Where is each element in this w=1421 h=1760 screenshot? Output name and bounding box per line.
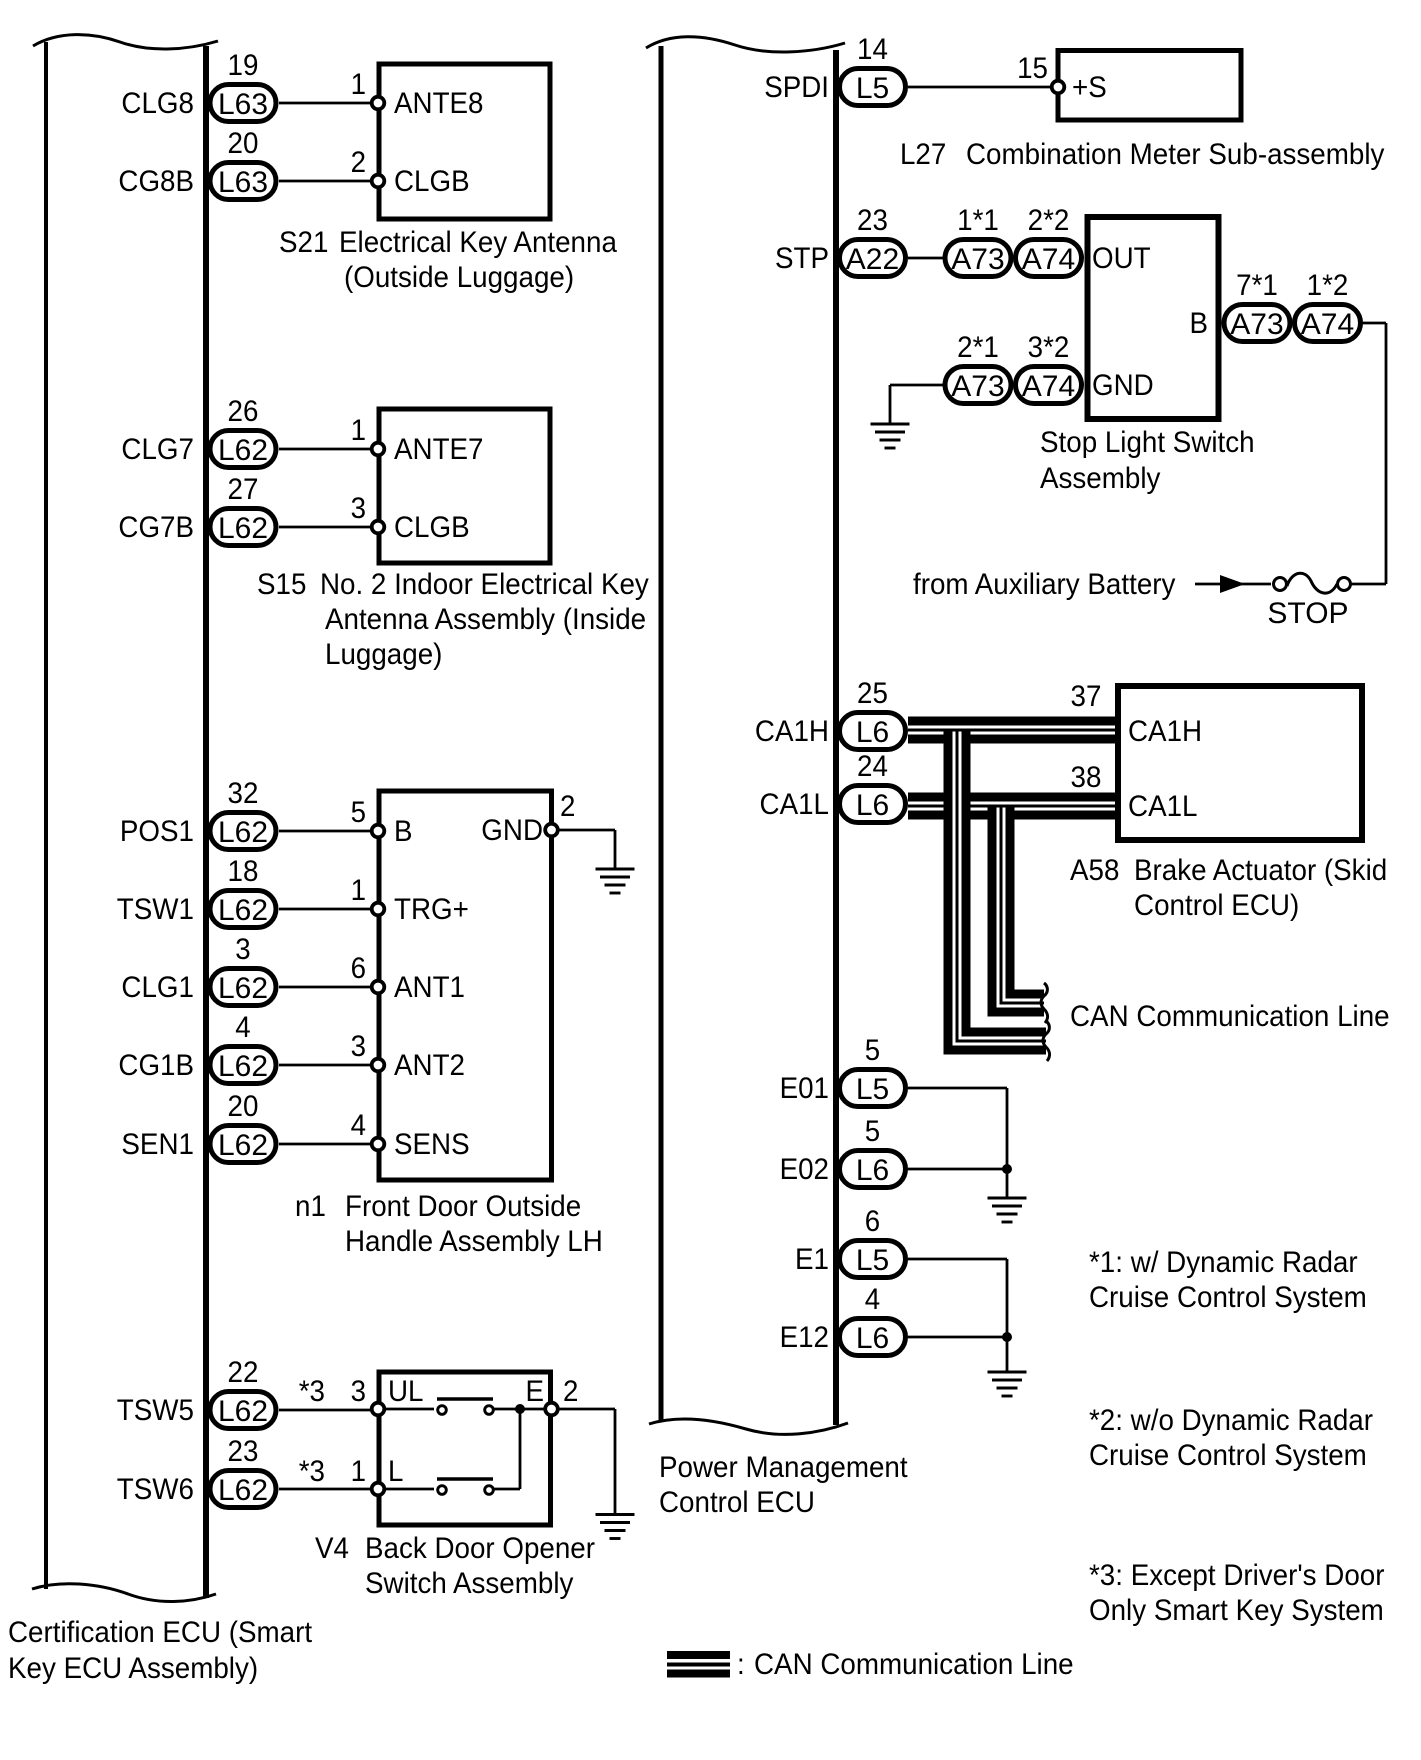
wire break squiggle at end of CA1H CAN branch (1043, 1021, 1050, 1061)
connector L5 pin 5 (E01) (840, 1034, 906, 1107)
legend label : CAN Communication Line (737, 1648, 1074, 1681)
svg-text:Antenna Assembly (Inside: Antenna Assembly (Inside (325, 603, 646, 636)
wire UL pin to switch contact (385, 1408, 434, 1411)
svg-text:7*1: 7*1 (1236, 269, 1278, 302)
note *1 w/ Dynamic Radar Cruise Control System (1089, 1246, 1367, 1314)
connector L62 pin 4 (CG1B) (210, 1011, 276, 1084)
svg-text:15: 15 (1017, 52, 1048, 85)
svg-text:L: L (388, 1455, 403, 1488)
wire from connector L62 to component (CLG7) (279, 448, 372, 451)
svg-text:22: 22 (228, 1356, 259, 1389)
svg-text:CG7B: CG7B (118, 511, 194, 544)
label Stop Light Switch Assembly (1040, 426, 1255, 495)
svg-text:CAN Communication Line: CAN Communication Line (754, 1648, 1074, 1681)
svg-text:L63: L63 (218, 88, 268, 121)
connector L6 pin 4 (E12) (840, 1283, 906, 1356)
svg-text:TSW6: TSW6 (117, 1473, 194, 1506)
svg-text:L62: L62 (218, 434, 268, 467)
connector A73 pin 1*1 (STP out) (945, 204, 1011, 277)
connector A73 pin 2*1 (GND) (945, 331, 1011, 404)
svg-text:Front Door Outside: Front Door Outside (345, 1190, 581, 1223)
svg-text:1: 1 (351, 1455, 366, 1488)
svg-text:1*1: 1*1 (957, 204, 999, 237)
switch UL contact circles (438, 1406, 494, 1415)
svg-text:CG1B: CG1B (118, 1049, 194, 1082)
svg-text:4: 4 (235, 1011, 250, 1044)
svg-text:A73: A73 (1230, 308, 1283, 341)
wire from connector L62 to component (TSW5) (279, 1409, 372, 1412)
svg-text:6: 6 (865, 1205, 880, 1238)
connector A73 pin 7*1 (B) (1224, 269, 1290, 342)
svg-text:14: 14 (857, 33, 888, 66)
wire n1 GND to ground (559, 830, 615, 869)
junction dot E01/E02 (1002, 1164, 1012, 1174)
svg-text:L62: L62 (218, 816, 268, 849)
svg-text:2*1: 2*1 (957, 331, 999, 364)
svg-text:3: 3 (235, 933, 250, 966)
label Power Management Control ECU (659, 1451, 908, 1519)
svg-text:B: B (394, 815, 413, 848)
svg-text:L62: L62 (218, 1474, 268, 1507)
svg-text:Only Smart Key System: Only Smart Key System (1089, 1594, 1384, 1627)
connector L6 pin 24 (CA1L) (840, 750, 906, 823)
pin 4 circle SENS on n1 (372, 1138, 385, 1151)
svg-text:B: B (1190, 307, 1209, 340)
svg-text:26: 26 (228, 395, 259, 428)
pin 1 circle TRG+ on n1 (372, 903, 385, 916)
connector L62 pin 20 (SEN1) (210, 1090, 276, 1163)
svg-text:L6: L6 (856, 1154, 889, 1187)
antenna S21 box outline (379, 64, 550, 219)
svg-text:18: 18 (228, 855, 259, 888)
svg-text:3: 3 (351, 1030, 366, 1063)
wire break squiggle at end of CA1L CAN branch (1041, 983, 1048, 1023)
svg-text:*1: w/ Dynamic Radar: *1: w/ Dynamic Radar (1089, 1246, 1358, 1279)
svg-text:n1: n1 (295, 1190, 326, 1223)
fuse STOP right terminal circle (1338, 578, 1351, 591)
connector L63 pin 20 (CG8B) (210, 127, 276, 200)
svg-text:(Outside Luggage): (Outside Luggage) (344, 261, 574, 294)
arrowhead from auxiliary battery (1220, 575, 1245, 593)
svg-text:2: 2 (563, 1375, 578, 1408)
ECU bus Power Management Control ECU left rail (659, 46, 664, 1421)
svg-text:CA1L: CA1L (1128, 790, 1198, 823)
svg-text:+S: +S (1072, 71, 1107, 104)
label S15 No. 2 Indoor Electrical Key Antenna Assembly (Inside Luggage) (257, 568, 649, 671)
label S21 Electrical Key Antenna (Outside Luggage) (279, 226, 617, 294)
svg-text:3*2: 3*2 (1028, 331, 1070, 364)
svg-text:1: 1 (351, 68, 366, 101)
pin 3 circle ANT2 on n1 (372, 1059, 385, 1072)
svg-text:27: 27 (228, 473, 259, 506)
svg-text:A74: A74 (1022, 370, 1075, 403)
wire from connector L62 to component (POS1) (279, 830, 372, 833)
svg-text:E01: E01 (780, 1072, 829, 1105)
switch V4 box outline (379, 1372, 551, 1525)
svg-text:L63: L63 (218, 166, 268, 199)
svg-text:ANT2: ANT2 (394, 1049, 465, 1082)
svg-text:L5: L5 (856, 72, 889, 105)
pin 1 circle ANTE7 on S15 (372, 443, 385, 456)
svg-text:TSW1: TSW1 (117, 893, 194, 926)
wire from auxiliary battery arrow (1195, 583, 1271, 586)
svg-text:2: 2 (351, 146, 366, 179)
svg-text:GND: GND (1092, 369, 1154, 402)
wire from connector L62 to component (TSW1) (279, 908, 372, 911)
svg-text:STP: STP (775, 242, 829, 275)
wire from connector L63 to component (CLG8) (279, 102, 372, 105)
svg-text:5: 5 (865, 1115, 880, 1148)
connector L62 pin 26 (CLG7) (210, 395, 276, 468)
connector L62 pin 18 (TSW1) (210, 855, 276, 928)
pin 5 circle B on n1 (372, 825, 385, 838)
svg-text:ANT1: ANT1 (394, 971, 465, 1004)
svg-text:E1: E1 (795, 1243, 829, 1276)
pin 6 circle ANT1 on n1 (372, 981, 385, 994)
wire break wave bottom of Certification ECU bus (32, 1584, 216, 1602)
svg-text:A74: A74 (1022, 243, 1075, 276)
wire E02 to ground riser (908, 1168, 1007, 1171)
svg-text:POS1: POS1 (120, 815, 194, 848)
svg-text:Brake Actuator (Skid: Brake Actuator (Skid (1134, 854, 1387, 887)
svg-text:Cruise Control System: Cruise Control System (1089, 1281, 1367, 1314)
svg-text:25: 25 (857, 677, 888, 710)
wire from connector L62 to component (CG7B) (279, 526, 372, 529)
wire SPDI to +S (908, 86, 1051, 89)
note *3 Except Driver's Door Only Smart Key System (1089, 1559, 1385, 1627)
meter L27 box outline (1058, 51, 1241, 121)
wire from connector L62 to component (SEN1) (279, 1143, 372, 1146)
legend CAN line symbol (667, 1651, 730, 1678)
svg-text:Electrical Key Antenna: Electrical Key Antenna (339, 226, 617, 259)
svg-text:Luggage): Luggage) (325, 638, 442, 671)
switch L contact circles (438, 1486, 494, 1495)
label L27 Combination Meter Sub-assembly (900, 138, 1384, 171)
svg-text:24: 24 (857, 750, 888, 783)
fuse STOP left terminal circle (1274, 578, 1287, 591)
svg-text:1: 1 (351, 874, 366, 907)
svg-text:No. 2 Indoor Electrical Key: No. 2 Indoor Electrical Key (320, 568, 649, 601)
wire from connector L62 to component (TSW6) (279, 1488, 372, 1491)
svg-text:A74: A74 (1301, 308, 1354, 341)
ground for V4 E (596, 1515, 635, 1539)
connector L5 pin 6 (E1) (840, 1205, 906, 1278)
svg-text:A73: A73 (951, 243, 1004, 276)
pin 3 circle UL on V4 (372, 1403, 385, 1416)
wire E1 to ground riser (908, 1259, 1007, 1372)
svg-text:Back Door Opener: Back Door Opener (365, 1532, 595, 1565)
svg-text:L27: L27 (900, 138, 946, 171)
connector L6 pin 25 (CA1H) (840, 677, 906, 750)
pin circle +S on L27 (1052, 81, 1065, 94)
svg-text:CLGB: CLGB (394, 165, 470, 198)
svg-text:Handle Assembly LH: Handle Assembly LH (345, 1225, 603, 1258)
svg-text:SPDI: SPDI (764, 71, 829, 104)
connector L62 pin 22 (TSW5) (210, 1356, 276, 1429)
connector L6 pin 5 (E02) (840, 1115, 906, 1188)
svg-text:Cruise Control System: Cruise Control System (1089, 1439, 1367, 1472)
svg-text:CA1L: CA1L (760, 788, 830, 821)
svg-text:GND: GND (481, 814, 543, 847)
switch L contact bar (437, 1477, 493, 1481)
wire L pin to switch contact (385, 1488, 434, 1491)
ECU bus Certification ECU right rail (203, 46, 209, 1598)
svg-text:38: 38 (1071, 761, 1102, 794)
svg-text::: : (737, 1648, 745, 1681)
svg-text:S21: S21 (279, 226, 328, 259)
wire from connector L62 to component (CG1B) (279, 1064, 372, 1067)
svg-text:1: 1 (351, 414, 366, 447)
svg-text:SENS: SENS (394, 1128, 470, 1161)
antenna S15 box outline (379, 409, 550, 563)
svg-text:Control ECU): Control ECU) (1134, 889, 1299, 922)
wire UL contact to E pin (494, 1408, 545, 1411)
svg-text:Combination Meter Sub-assembly: Combination Meter Sub-assembly (966, 138, 1384, 171)
pin E circle on V4 (545, 1403, 558, 1416)
svg-text:L62: L62 (218, 512, 268, 545)
junction dot UL/L to E (515, 1404, 525, 1414)
wire E12 to ground riser (908, 1336, 1007, 1339)
svg-text:CLG1: CLG1 (121, 971, 194, 1004)
svg-text:TRG+: TRG+ (394, 893, 469, 926)
svg-text:3: 3 (351, 1375, 366, 1408)
switch assembly Stop Light Switch box outline (1088, 217, 1219, 419)
connector L62 pin 32 (POS1) (210, 777, 276, 850)
pin 2 circle GND on n1 (545, 824, 558, 837)
svg-text:from Auxiliary Battery: from Auxiliary Battery (913, 568, 1175, 601)
connector A74 pin 3*2 (GND) (1016, 331, 1082, 404)
CAN bus branch from CA1L down to CAN communication line (1001, 808, 1044, 1004)
svg-text:CG8B: CG8B (118, 165, 194, 198)
svg-text:Assembly: Assembly (1040, 462, 1160, 495)
label Certification ECU (Smart Key ECU Assembly) (8, 1616, 313, 1685)
svg-text:L62: L62 (218, 1129, 268, 1162)
connector L62 pin 3 (CLG1) (210, 933, 276, 1006)
label V4 Back Door Opener Switch Assembly (315, 1532, 595, 1600)
svg-text:OUT: OUT (1092, 242, 1151, 275)
svg-text:Stop Light Switch: Stop Light Switch (1040, 426, 1255, 459)
wire B pills to STOP fuse (1351, 323, 1386, 584)
svg-text:SEN1: SEN1 (121, 1128, 194, 1161)
svg-text:L5: L5 (856, 1244, 889, 1277)
svg-text:*2: w/o Dynamic Radar: *2: w/o Dynamic Radar (1089, 1404, 1373, 1437)
svg-text:Power Management: Power Management (659, 1451, 908, 1484)
fuse STOP element wave (1287, 573, 1337, 593)
wire E01 to ground riser (908, 1088, 1007, 1198)
wire from connector L62 to component (CLG1) (279, 986, 372, 989)
svg-text:A58: A58 (1070, 854, 1119, 887)
wire break wave top of Certification ECU bus (33, 35, 218, 49)
switch UL contact bar (437, 1397, 493, 1401)
svg-text:CA1H: CA1H (755, 715, 829, 748)
CAN bus branch from CA1H down to CAN communication line (957, 732, 1046, 1042)
svg-text:4: 4 (865, 1283, 880, 1316)
pin 1 circle L on V4 (372, 1483, 385, 1496)
svg-text:ANTE7: ANTE7 (394, 433, 484, 466)
svg-text:V4: V4 (315, 1532, 349, 1565)
wire from connector L63 to component (CG8B) (279, 180, 372, 183)
junction dot E1/E12 (1002, 1332, 1012, 1342)
svg-text:5: 5 (351, 796, 366, 829)
ECU bus Certification ECU left rail (44, 42, 48, 1589)
svg-text:S15: S15 (257, 568, 306, 601)
svg-text:TSW5: TSW5 (117, 1394, 194, 1427)
connector L5 pin 14 (SPDI) (840, 33, 906, 106)
connector A22 pin 23 (STP) (840, 204, 906, 277)
connector A74 pin 2*2 (STP out) (1016, 204, 1082, 277)
note *2 w/o Dynamic Radar Cruise Control System (1089, 1404, 1373, 1472)
svg-text:E: E (526, 1375, 545, 1408)
svg-text:19: 19 (228, 49, 259, 82)
ground for E1/E12 (988, 1372, 1027, 1396)
pin 2 circle CLGB on S21 (372, 175, 385, 188)
ground for E01/E02 (988, 1198, 1027, 1222)
svg-text:E02: E02 (780, 1153, 829, 1186)
svg-text:L6: L6 (856, 789, 889, 822)
CAN bus line CA1H horizontal band (net CA1H) (908, 717, 1116, 744)
svg-text:CA1H: CA1H (1128, 715, 1202, 748)
svg-text:Certification ECU (Smart: Certification ECU (Smart (8, 1616, 313, 1649)
ground for Stop Light Switch GND (871, 424, 910, 448)
wire L contact to junction riser (494, 1409, 520, 1489)
svg-text:23: 23 (857, 204, 888, 237)
connector A74 pin 1*2 (B) (1295, 269, 1361, 342)
svg-text:UL: UL (388, 1375, 424, 1408)
svg-text:L5: L5 (856, 1073, 889, 1106)
connector L63 pin 19 (CLG8) (210, 49, 276, 122)
svg-text:1*2: 1*2 (1307, 269, 1349, 302)
svg-text:L62: L62 (218, 894, 268, 927)
svg-text:E12: E12 (780, 1321, 829, 1354)
svg-text:Control ECU: Control ECU (659, 1486, 815, 1519)
svg-text:CLG8: CLG8 (121, 87, 194, 120)
wire break wave top of Power Management ECU bus (646, 37, 845, 52)
svg-text:20: 20 (228, 1090, 259, 1123)
ECU bus Power Management Control ECU right rail (833, 50, 839, 1425)
svg-text:32: 32 (228, 777, 259, 810)
connector L62 pin 23 (TSW6) (210, 1435, 276, 1508)
svg-text:A22: A22 (846, 243, 899, 276)
svg-text:L6: L6 (856, 1322, 889, 1355)
connector L62 pin 27 (CG7B) (210, 473, 276, 546)
svg-text:5: 5 (865, 1034, 880, 1067)
svg-text:*3: *3 (299, 1455, 325, 1488)
svg-text:*3: *3 (299, 1375, 325, 1408)
wire A22 to A73 (908, 257, 945, 260)
svg-text:STOP: STOP (1267, 597, 1348, 630)
pin 1 circle ANTE8 on S21 (372, 97, 385, 110)
svg-text:Key ECU Assembly): Key ECU Assembly) (8, 1652, 258, 1685)
label n1 Front Door Outside Handle Assembly LH (295, 1190, 603, 1258)
svg-text:L62: L62 (218, 1395, 268, 1428)
svg-text:Switch Assembly: Switch Assembly (365, 1567, 573, 1600)
svg-text:L62: L62 (218, 972, 268, 1005)
svg-text:CLGB: CLGB (394, 511, 470, 544)
svg-text:L6: L6 (856, 716, 889, 749)
wire GND pills to ground (890, 385, 946, 424)
svg-text:23: 23 (228, 1435, 259, 1468)
pin 3 circle CLGB on S15 (372, 521, 385, 534)
svg-text:6: 6 (351, 952, 366, 985)
svg-text:20: 20 (228, 127, 259, 160)
svg-text:CAN Communication Line: CAN Communication Line (1070, 1000, 1390, 1033)
svg-text:ANTE8: ANTE8 (394, 87, 484, 120)
svg-text:L62: L62 (218, 1050, 268, 1083)
CAN bus line CA1L horizontal band (net CA1L) (908, 793, 1116, 820)
wire break wave bottom of Power Management ECU bus (649, 1419, 848, 1434)
brake actuator A58 box outline (1118, 686, 1362, 840)
svg-text:37: 37 (1071, 680, 1102, 713)
wire V4 E pin to ground (559, 1409, 615, 1514)
svg-text:2: 2 (560, 790, 575, 823)
label A58 Brake Actuator (Skid Control ECU) (1070, 854, 1387, 922)
svg-text:3: 3 (351, 492, 366, 525)
svg-text:A73: A73 (951, 370, 1004, 403)
handle assembly n1 box outline (379, 791, 552, 1180)
ground for n1 GND (596, 869, 635, 893)
svg-text:4: 4 (351, 1109, 366, 1142)
svg-text:2*2: 2*2 (1028, 204, 1070, 237)
svg-text:CLG7: CLG7 (121, 433, 194, 466)
svg-text:*3: Except Driver's Door: *3: Except Driver's Door (1089, 1559, 1385, 1592)
